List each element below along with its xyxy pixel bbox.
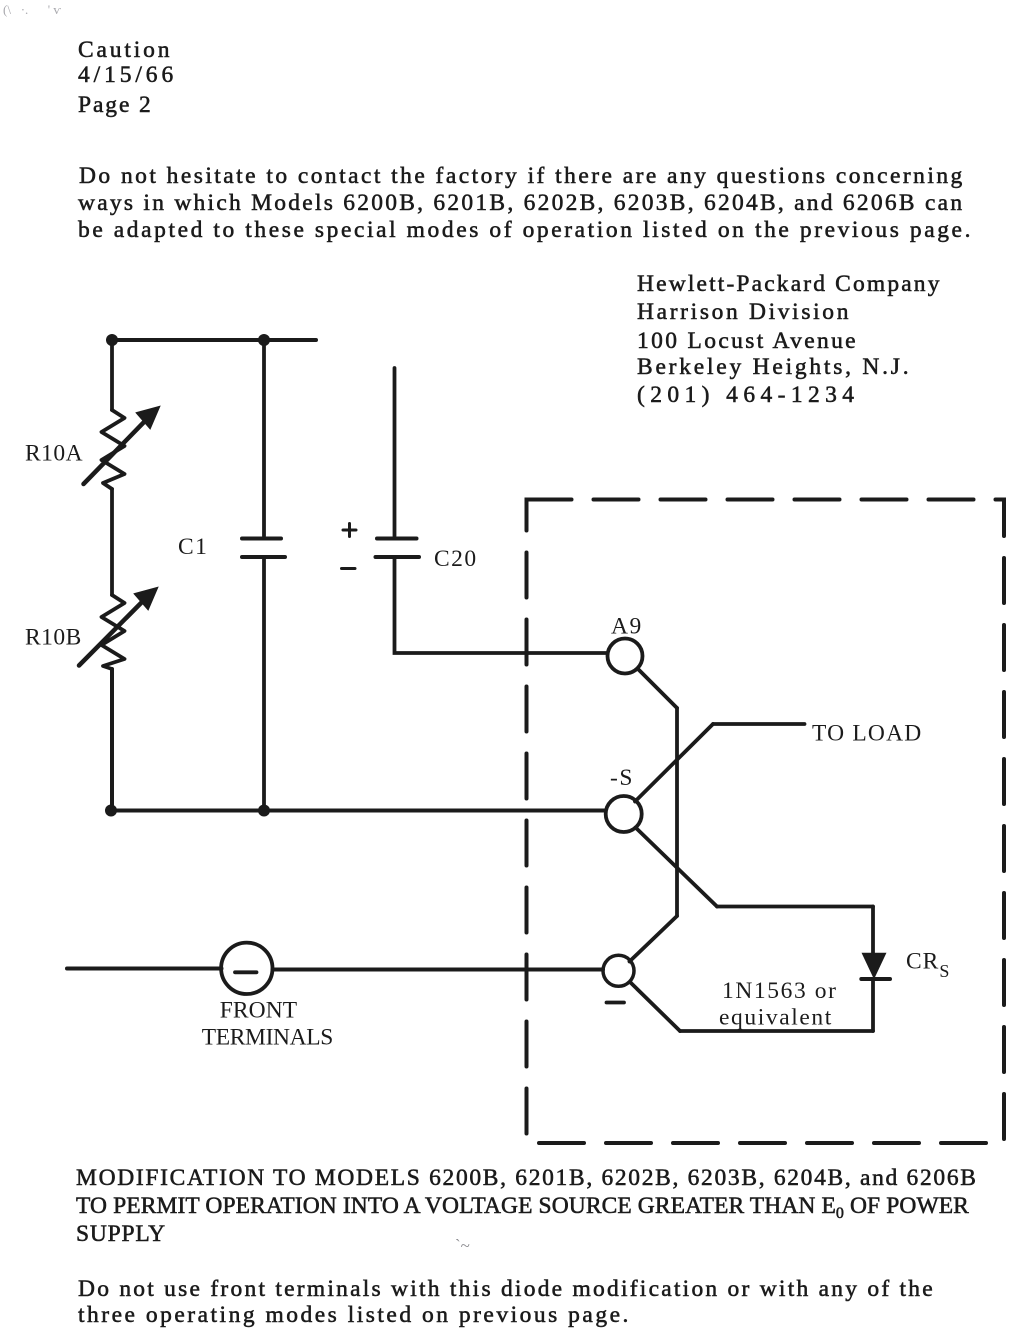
wire -S to diode box top (636, 828, 718, 907)
wire to load horizontal (713, 722, 805, 726)
wire diode right upper (871, 907, 875, 956)
svg-text:FRONT: FRONT (220, 998, 298, 1024)
header line date (78, 62, 177, 89)
junction dot bottom-left (105, 805, 117, 817)
svg-text:TERMINALS: TERMINALS (202, 1025, 333, 1051)
capacitor C1 upper lead (262, 342, 266, 536)
capacitor C20 bottom plate (376, 555, 420, 559)
caption line 3 SUPPLY (76, 1221, 166, 1248)
minus polarity mark of C20 (342, 567, 356, 570)
resistor R10A (102, 410, 125, 489)
junction dot top-left (106, 334, 118, 346)
svg-text:C20: C20 (434, 546, 478, 572)
bottom paragraph line 1 (78, 1276, 935, 1303)
paragraph line 3 (78, 217, 973, 244)
address line 5 (637, 382, 859, 409)
svg-text:R10B: R10B (25, 625, 82, 651)
wire front terminals left (67, 967, 222, 971)
capacitor C1 lower lead (262, 559, 266, 809)
front terminal circle (221, 943, 272, 994)
wire left vertical upper (110, 340, 114, 410)
svg-text:equivalent: equivalent (719, 1005, 833, 1031)
header line Page 2 (78, 92, 153, 119)
terminal minus (603, 955, 634, 986)
capacitor C20 top plate (377, 537, 417, 541)
svg-text:A9: A9 (611, 614, 643, 640)
wire vertical to minus terminal (630, 916, 678, 962)
paragraph line 1 (79, 163, 965, 190)
capacitor C20 upper lead (393, 368, 397, 536)
arrow of R10B (79, 588, 157, 666)
svg-text:-S: -S (610, 765, 634, 791)
junction dot bottom C1 (258, 805, 270, 817)
header line Caution (78, 37, 172, 64)
svg-text:R10A: R10A (25, 441, 83, 467)
wire bottom bus to -S (109, 809, 606, 813)
wire to load diagonal (635, 724, 713, 802)
address line 2 (637, 299, 851, 326)
svg-text:1N1563 or: 1N1563 or (722, 978, 838, 1004)
wire diode top horizontal (717, 905, 873, 909)
address line 4 (637, 354, 911, 381)
wire left vertical lower (110, 669, 114, 811)
dashed enclosure box (527, 500, 1005, 1144)
svg-text:TO LOAD: TO LOAD (812, 721, 922, 747)
wire diode right lower (871, 980, 875, 1031)
wire vertical mid (675, 708, 679, 916)
wire top bus (110, 338, 316, 342)
address line 3 (637, 328, 858, 355)
wire A9 to vertical (638, 669, 678, 709)
capacitor C1 bottom plate (242, 555, 285, 559)
resistor R10B (102, 595, 125, 669)
wire C20 to A9 (395, 559, 607, 653)
minus mark below terminal (607, 1001, 625, 1005)
wire front terminals right (273, 968, 604, 972)
plus polarity mark of C20 (343, 524, 356, 537)
scan smudge marks top-left (3, 2, 93, 14)
caption line 1 MODIFICATION (76, 1165, 978, 1192)
minus mark in front terminal (235, 970, 257, 974)
terminal A9 (608, 639, 643, 674)
address line 1 (637, 271, 942, 298)
wire bottom diagonal to minus terminal (631, 983, 681, 1032)
terminal -S (606, 796, 642, 832)
wire diode bottom horizontal (680, 1029, 873, 1033)
caption line 2 TO PERMIT (76, 1193, 969, 1222)
svg-text:C1: C1 (178, 534, 208, 560)
bottom paragraph line 2 (78, 1302, 631, 1329)
svg-text:CRS: CRS (906, 949, 950, 982)
paragraph line 2 (78, 190, 964, 217)
scan mark tilde (455, 1236, 470, 1256)
junction dot top C1 (258, 334, 270, 346)
arrow of R10A (84, 407, 160, 484)
diode CRS (861, 954, 890, 980)
wire left vertical middle (110, 489, 114, 595)
capacitor C1 top plate (242, 537, 281, 541)
